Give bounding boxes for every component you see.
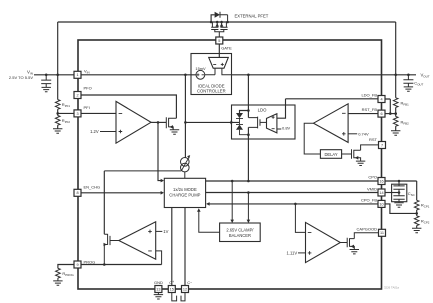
pin 1 VIN: [74, 71, 81, 78]
wire PFO line: [81, 95, 176, 118]
svg-text:0.8V: 0.8V: [282, 126, 291, 131]
pin 3 PFI: [74, 110, 81, 117]
op-amp ideal diode (trapezoid): [209, 57, 229, 68]
pin 4 LDO_FB: [378, 96, 385, 103]
wire LDO minus input: [277, 128, 281, 130]
svg-text:LDO: LDO: [258, 107, 267, 112]
svg-text:RST: RST: [369, 137, 378, 142]
capacitor CF plate right: [181, 293, 186, 301]
ground RPF2: [53, 129, 62, 133]
pin 14 VMID: [378, 189, 385, 196]
wire top rail to external PFET: [58, 21, 396, 23]
wire CPO_FB down to comparator: [295, 204, 305, 233]
wire GATE to ideal diode amp: [218, 44, 220, 57]
wire PROG FET drain to source node: [104, 170, 181, 172]
ground RFB2: [391, 131, 400, 135]
svg-text:LDO_FB: LDO_FB: [361, 93, 377, 98]
svg-text:16: 16: [379, 179, 383, 183]
label 1.11V: [287, 251, 298, 256]
svg-text:3226 TA01a: 3226 TA01a: [384, 286, 399, 290]
wire diode top branch: [240, 111, 249, 114]
label CPO: [368, 175, 377, 180]
pin 13 GND: [155, 286, 162, 293]
svg-text:CPO: CPO: [368, 175, 377, 180]
wire VOUT rail: [232, 74, 417, 76]
svg-text:PROG: PROG: [84, 259, 96, 264]
ground PFO FET: [170, 130, 179, 134]
resistor RCP2: [414, 213, 429, 228]
block CSC box: [392, 184, 407, 202]
wire PROG line: [81, 264, 162, 266]
wire 1V ref: [156, 230, 163, 232]
pin 2 PFO: [74, 92, 81, 99]
resistor RFB2: [393, 114, 409, 131]
svg-text:BALANCER: BALANCER: [229, 233, 251, 238]
wire LDO output down to CPO: [247, 127, 249, 181]
wire current source to pump: [184, 172, 186, 179]
svg-text:15: 15: [170, 287, 174, 291]
svg-text:7: 7: [381, 143, 383, 147]
wire VIN down to divider: [57, 75, 59, 100]
svg-text:CHARGE PUMP: CHARGE PUMP: [169, 193, 200, 198]
transistor PROG FET: [104, 234, 111, 246]
wire PFET drain to VOUT: [395, 22, 397, 75]
op-amp PROG servo: [119, 222, 156, 259]
comparator RST: [314, 104, 349, 143]
wire C+ column: [171, 208, 173, 286]
wire CPO_FB external: [385, 204, 417, 214]
svg-text:2.5V TO 5.5V: 2.5V TO 5.5V: [9, 75, 33, 80]
junction CSC top: [398, 180, 401, 183]
wire VIN branch to LDO diodes: [185, 121, 239, 123]
svg-text:PFI: PFI: [84, 105, 90, 110]
block LDO box: [232, 105, 296, 139]
wire 1.2V ref: [100, 131, 116, 133]
junction LDO diode bottom: [247, 133, 250, 136]
wire CAPGOOD comp out: [340, 242, 347, 244]
junction comparator output: [157, 121, 160, 124]
capacitor CIN: [41, 75, 51, 87]
wire CPO line: [206, 180, 378, 182]
wire 1.11V ref: [298, 252, 306, 254]
wire PFET left diode leg: [211, 15, 215, 22]
capacitor CSC lower: [393, 193, 404, 203]
svg-text:2.65V CLAMP/: 2.65V CLAMP/: [226, 227, 254, 232]
svg-text:14: 14: [379, 191, 383, 195]
label 1x/2x MODE: [173, 187, 197, 192]
wire delay to FET gate: [342, 153, 352, 155]
op-amp LDO error amp: [267, 114, 277, 133]
svg-text:EN_CHG: EN_CHG: [84, 184, 101, 189]
pin 16 CPO: [378, 178, 385, 185]
capacitor CSC upper: [393, 181, 404, 193]
ground RCP2: [412, 228, 421, 232]
wire RST FET drain to pin: [361, 145, 379, 150]
label CHARGE PUMP: [169, 193, 200, 198]
label GND: [154, 280, 163, 285]
pin 12 C-: [182, 286, 189, 293]
wire PFI to comparator: [81, 112, 116, 114]
junction LDO diode top: [247, 109, 250, 112]
junction CPO_FB to CAPGOOD comp: [294, 203, 297, 206]
junction PFET drain right: [226, 21, 229, 24]
block IDEAL DIODE CONTROLLER box: [191, 54, 232, 95]
voltage source 15mV: [195, 66, 206, 79]
svg-text:GATE: GATE: [221, 46, 232, 51]
svg-text:DELAY: DELAY: [324, 152, 337, 157]
transistor RST pulldown: [352, 149, 361, 161]
wire PROG to RPROG: [58, 265, 74, 269]
svg-text:6: 6: [380, 112, 382, 116]
ground RST FET: [356, 161, 365, 165]
block clamp balancer: [220, 223, 261, 242]
transistor LDO pass FET: [248, 117, 260, 129]
wire RST_FB to comparator: [348, 113, 378, 115]
arrow balancer into pump: [197, 208, 201, 211]
svg-text:8: 8: [76, 191, 78, 195]
block DELAY: [320, 150, 341, 159]
pin 10 CPO_FB: [378, 200, 385, 207]
wire LDO plus input to LDO_FB: [277, 99, 286, 118]
ground COUT: [404, 87, 413, 91]
label 0.8V: [282, 126, 291, 131]
wire pin6 external: [385, 113, 396, 115]
arrow CPO_FB into pump: [206, 202, 209, 206]
wire RCP1 to node: [416, 210, 418, 214]
ground CIN: [42, 87, 51, 91]
node PFI divider tap: [56, 112, 59, 115]
wire VMID external: [385, 192, 399, 194]
resistor RCP1: [414, 200, 429, 210]
wire comparator to charge pump: [158, 122, 163, 180]
arrow EN_CHG into charge pump: [161, 191, 164, 195]
wire VOUT to RFB divider: [395, 75, 397, 98]
wire VMID line: [206, 192, 378, 194]
arrow into balancer left: [230, 220, 234, 223]
svg-text:CPO_FB: CPO_FB: [361, 198, 377, 203]
svg-text:GND: GND: [154, 280, 163, 285]
wire CPO_FB line: [207, 203, 378, 205]
arrow into charge pump upper: [161, 179, 164, 183]
label CAPGOOD: [357, 226, 378, 231]
junction CPO to balancer: [231, 180, 234, 183]
junction PFET drain left: [210, 21, 213, 24]
wire PROG amp out: [110, 240, 119, 242]
svg-text:15mV: 15mV: [195, 66, 206, 71]
comparator PFI: [116, 101, 151, 143]
wire comparator output: [151, 121, 166, 123]
label CPO_FB: [361, 198, 377, 203]
label CONTROLLER: [197, 89, 226, 94]
label LDO_FB: [361, 93, 377, 98]
svg-text:CONTROLLER: CONTROLLER: [197, 89, 226, 94]
wire RFB1 to node: [395, 107, 397, 113]
diode body (external PFET): [215, 12, 228, 22]
junction PFET source left: [216, 21, 219, 24]
junction VIN to charge path: [184, 74, 187, 77]
svg-text:13: 13: [156, 287, 160, 291]
diode LDO lower: [236, 122, 248, 134]
svg-text:PFO: PFO: [84, 86, 92, 91]
label IDEAL DIODE: [198, 83, 225, 88]
wire GND stub: [157, 293, 159, 295]
capacitor CF plate left: [172, 293, 177, 301]
wire RST comp out to delay: [304, 123, 320, 154]
wire balancer to pump bottom: [199, 210, 220, 233]
capacitor COUT: [403, 75, 423, 87]
arrow into balancer right: [247, 220, 251, 223]
svg-text:9: 9: [76, 263, 78, 267]
current source programmable: [181, 155, 191, 172]
wire RPF1 to node: [57, 109, 59, 113]
resistor RPF1: [55, 100, 70, 110]
comparator CAPGOOD: [306, 222, 341, 262]
wire PFET gate tie: [215, 30, 224, 38]
junction PFET source right: [220, 21, 223, 24]
junction pin4 to divider: [389, 112, 392, 115]
wire VIN down to current source: [184, 75, 186, 158]
ground CAPGOOD FET: [350, 250, 359, 254]
wire LDO_FB line: [286, 98, 379, 100]
svg-text:4: 4: [380, 97, 382, 101]
ground GND pin: [154, 295, 163, 299]
wire LDO gate: [260, 121, 267, 123]
pin 6 RST_FB: [378, 110, 385, 117]
label 2.65V CLAMP/: [226, 227, 254, 232]
pin 9 PROG: [74, 261, 81, 268]
label part number: [384, 286, 399, 290]
junction CSC mid: [398, 191, 401, 194]
junction VIN to LDO branch: [184, 121, 187, 124]
svg-text:5: 5: [218, 39, 220, 43]
svg-text:1V: 1V: [163, 229, 168, 234]
wire VOUT down into LDO: [247, 75, 249, 118]
wire VIN internal: [81, 74, 196, 76]
node CPO_FB tap: [415, 212, 418, 215]
transistor CAPGOOD pulldown: [347, 238, 354, 250]
wire amp right input: [222, 68, 232, 75]
wire amp left input: [205, 68, 215, 75]
label VIN pin: [84, 69, 90, 75]
junction VIN column: [56, 74, 59, 77]
resistor RPF2: [55, 113, 70, 128]
IC boundary (LTC3226): [78, 40, 382, 289]
svg-text:1x/2x MODE: 1x/2x MODE: [173, 187, 197, 192]
junction PROG FET source: [103, 263, 106, 266]
label 0.74V: [358, 132, 369, 137]
svg-text:CAPGOOD: CAPGOOD: [357, 226, 378, 231]
svg-text:VMID: VMID: [367, 186, 377, 191]
pin 8 EN_CHG: [74, 189, 81, 196]
svg-text:RST_FB: RST_FB: [362, 107, 378, 112]
wire pin4 external: [385, 99, 390, 114]
pin 5 GATE: [216, 37, 223, 44]
resistor RPROG: [56, 268, 75, 278]
label PROG: [84, 259, 96, 264]
pin 7 RST: [379, 142, 386, 149]
wire VIN input: [34, 74, 74, 76]
label 1V: [163, 229, 168, 234]
svg-text:2: 2: [76, 93, 78, 97]
wire PROG minus loop: [156, 251, 162, 265]
label VOUT: [421, 72, 430, 78]
svg-text:3: 3: [76, 112, 78, 116]
svg-text:1: 1: [76, 73, 78, 77]
label RST: [369, 137, 378, 142]
transistor external PFET A: [211, 22, 219, 30]
label PFO: [84, 86, 92, 91]
svg-text:EXTERNAL PFET: EXTERNAL PFET: [235, 14, 269, 19]
junction CIN: [45, 74, 48, 77]
junction LDO top: [247, 74, 250, 77]
label GATE: [221, 46, 232, 51]
label EN_CHG: [84, 184, 101, 189]
wire PROG FET drain up: [103, 171, 105, 234]
junction VMID to balancer: [247, 191, 250, 194]
wire CPO external: [385, 180, 417, 182]
wire CAPGOOD FET drain to pin: [354, 233, 378, 239]
pin 11 CAPGOOD: [379, 229, 386, 236]
junction COUT: [407, 74, 410, 77]
wire 0.74V ref: [348, 133, 357, 135]
wire VIN up to PFET rail: [57, 22, 59, 75]
wire C- column: [184, 208, 186, 286]
ground CSC: [394, 203, 403, 207]
label BALANCER: [229, 233, 251, 238]
label RST_FB: [362, 107, 378, 112]
wire EN_CHG: [81, 192, 163, 194]
wire CPO down to balancer: [231, 181, 233, 222]
wire CPO down right: [416, 181, 418, 200]
label PFI: [84, 105, 90, 110]
wire VMID down to balancer: [247, 193, 249, 222]
junction PFET VOUT: [394, 74, 397, 77]
node VIN input label: [9, 69, 33, 80]
label C+: [169, 280, 174, 285]
diode LDO upper: [236, 113, 243, 122]
label VMID: [367, 186, 377, 191]
svg-text:1.2V: 1.2V: [90, 129, 99, 134]
svg-text:1.11V: 1.11V: [287, 251, 298, 256]
svg-text:0.74V: 0.74V: [358, 132, 369, 137]
label EXTERNAL PFET: [235, 14, 269, 19]
label LDO: [258, 107, 267, 112]
svg-text:10: 10: [379, 202, 383, 206]
transistor PFO pulldown: [166, 117, 176, 129]
transistor external PFET B: [220, 22, 228, 30]
node RST_FB tap: [394, 112, 397, 115]
label C-: [187, 280, 192, 285]
wire PROG FET source down: [103, 245, 105, 265]
block charge pump: [164, 178, 205, 207]
wire tap to PFI pin: [58, 112, 74, 114]
arrow into LDO: [230, 121, 233, 125]
resistor RFB1: [393, 98, 409, 108]
junction CPO to LDO: [247, 180, 250, 183]
pin 15 C+: [168, 286, 175, 293]
svg-text:11: 11: [380, 231, 384, 235]
ground RPROG: [53, 278, 62, 285]
svg-text:12: 12: [183, 287, 187, 291]
label 1.2V: [90, 129, 99, 134]
label CSC: [408, 191, 415, 197]
